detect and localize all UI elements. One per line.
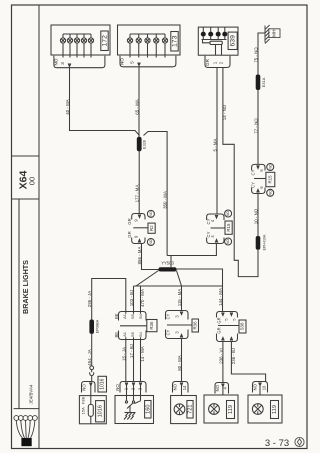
splice E31A bbox=[256, 75, 261, 91]
svg-text:5: 5 bbox=[233, 318, 237, 320]
svg-text:3 - 73: 3 - 73 bbox=[265, 438, 289, 449]
bus wire horizontal bbox=[134, 285, 223, 287]
svg-text:NO: NO bbox=[268, 164, 272, 169]
wire 172 pin3 down bbox=[70, 68, 140, 136]
svg-text:NO: NO bbox=[115, 384, 120, 391]
pin bracket below 173 bbox=[120, 56, 176, 67]
svg-text:6: 6 bbox=[259, 169, 264, 172]
svg-text:BRAKE LIGHTS: BRAKE LIGHTS bbox=[21, 260, 30, 314]
connector 172 bbox=[51, 25, 110, 58]
connector label box 1016 above bbox=[98, 376, 107, 392]
splice EP08BA bbox=[89, 320, 94, 334]
pin bracket above 160 bbox=[120, 382, 146, 393]
svg-text:B4: B4 bbox=[138, 313, 143, 319]
svg-text:119: 119 bbox=[272, 405, 278, 414]
svg-text:160: 160 bbox=[145, 405, 151, 414]
pin bracket above 119 right bbox=[253, 382, 268, 396]
wire S36 pin5 to 119 left bbox=[222, 342, 224, 383]
svg-text:119: 119 bbox=[228, 405, 234, 414]
title block box X64 bbox=[12, 155, 40, 157]
pin bracket below 172 bbox=[54, 56, 105, 68]
wire YY503 left diagonal to bus bbox=[134, 271, 159, 287]
svg-text:80 - MA: 80 - MA bbox=[177, 355, 182, 370]
wire E328 to R2 bbox=[138, 151, 140, 213]
svg-text:GR: GR bbox=[205, 58, 210, 66]
wire 639 pin2 14-NO bbox=[223, 68, 258, 277]
svg-text:F3B: F3B bbox=[80, 397, 85, 405]
lamp unit 721 bbox=[171, 396, 197, 424]
svg-text:GR: GR bbox=[127, 218, 132, 224]
splice EPH4 bbox=[256, 236, 261, 250]
fuse unit 1016 bbox=[79, 386, 106, 424]
lamp unit 119 left bbox=[204, 395, 238, 423]
svg-text:65 - MA: 65 - MA bbox=[134, 99, 139, 114]
svg-text:75 - NO: 75 - NO bbox=[253, 47, 258, 63]
svg-text:1016: 1016 bbox=[100, 378, 106, 389]
svg-text:5: 5 bbox=[130, 61, 135, 64]
svg-text:14: 14 bbox=[182, 385, 187, 390]
svg-text:1016: 1016 bbox=[98, 405, 104, 417]
svg-text:NO: NO bbox=[215, 384, 220, 391]
splice YY503 bbox=[159, 267, 177, 271]
sidebar harness icon bbox=[14, 416, 37, 447]
wire bus drop 115-MA bbox=[181, 286, 183, 311]
svg-text:YY503: YY503 bbox=[161, 261, 174, 266]
svg-text:CY: CY bbox=[166, 313, 171, 319]
connector S36 bbox=[217, 312, 247, 342]
svg-text:NO: NO bbox=[226, 211, 230, 216]
svg-text:16: 16 bbox=[261, 385, 266, 390]
logo circle bbox=[295, 437, 304, 446]
svg-text:GR: GR bbox=[216, 317, 221, 323]
svg-text:B4: B4 bbox=[138, 331, 143, 337]
wire 639 pin1 5-MA bbox=[216, 68, 218, 215]
svg-text:15A: 15A bbox=[80, 407, 85, 414]
svg-text:9: 9 bbox=[133, 235, 138, 238]
sidebar divider bbox=[38, 5, 40, 449]
svg-text:40 - MA: 40 - MA bbox=[65, 99, 70, 114]
svg-text:R36: R36 bbox=[192, 321, 197, 330]
svg-text:4: 4 bbox=[223, 386, 228, 389]
svg-text:B5: B5 bbox=[130, 314, 135, 319]
svg-text:177 - MA: 177 - MA bbox=[135, 185, 140, 203]
wire YY503 right out to 144-MA bbox=[177, 269, 223, 312]
lamp unit 119 right bbox=[248, 395, 282, 423]
pin bracket below 639 bbox=[205, 56, 230, 68]
svg-text:350 - MA: 350 - MA bbox=[163, 191, 168, 209]
connector R36 A1 B5 B4 bbox=[119, 312, 158, 340]
svg-text:1: 1 bbox=[212, 61, 217, 64]
svg-text:14 - NO: 14 - NO bbox=[222, 104, 227, 120]
svg-text:9: 9 bbox=[133, 219, 138, 222]
svg-text:BE: BE bbox=[114, 313, 119, 319]
svg-text:R36: R36 bbox=[149, 321, 154, 330]
splice E328 bbox=[137, 137, 142, 152]
svg-text:JE4/BVA4: JE4/BVA4 bbox=[29, 384, 34, 404]
svg-text:77 - NO: 77 - NO bbox=[253, 118, 258, 134]
connector R15 pins 4/4 bbox=[207, 210, 233, 245]
svg-text:NO: NO bbox=[172, 383, 177, 390]
svg-text:3: 3 bbox=[175, 331, 180, 334]
svg-text:CY: CY bbox=[251, 169, 256, 175]
svg-text:3: 3 bbox=[175, 315, 180, 318]
svg-text:5: 5 bbox=[225, 318, 229, 320]
svg-text:173: 173 bbox=[171, 35, 178, 47]
inline connector on JA wire bbox=[90, 366, 94, 381]
svg-text:103 - BJ: 103 - BJ bbox=[129, 290, 134, 306]
svg-text:6: 6 bbox=[259, 186, 264, 189]
svg-text:R15: R15 bbox=[268, 175, 273, 184]
svg-text:00: 00 bbox=[28, 177, 37, 185]
wire S36 pin5 to 119 right bbox=[231, 342, 265, 382]
svg-text:E31A: E31A bbox=[261, 77, 266, 87]
svg-text:15 - JA: 15 - JA bbox=[121, 347, 126, 361]
relay unit 639 bbox=[198, 27, 238, 55]
wire R36a B5 to 160 pin2 bbox=[133, 340, 135, 383]
svg-text:639: 639 bbox=[229, 35, 236, 47]
svg-text:S36: S36 bbox=[240, 322, 245, 330]
svg-text:B5: B5 bbox=[130, 332, 135, 337]
svg-text:2: 2 bbox=[219, 61, 224, 64]
svg-text:CY: CY bbox=[251, 182, 256, 188]
svg-text:115 - MA: 115 - MA bbox=[177, 289, 182, 307]
wire R15 pin4 + 350-MA into YY503 bbox=[167, 244, 216, 268]
svg-text:NO: NO bbox=[120, 58, 125, 65]
svg-text:10 - NO: 10 - NO bbox=[253, 208, 258, 224]
svg-text:NO: NO bbox=[226, 239, 230, 244]
svg-text:17 - BJ: 17 - BJ bbox=[129, 344, 134, 358]
svg-text:BE: BE bbox=[114, 332, 119, 338]
ground MH bbox=[265, 25, 280, 44]
wire ground to E31A bbox=[258, 33, 265, 75]
svg-text:236 - BJ: 236 - BJ bbox=[231, 348, 236, 364]
svg-text:A1: A1 bbox=[122, 314, 127, 319]
svg-text:E328: E328 bbox=[143, 140, 147, 149]
wire EP08BA down bbox=[91, 334, 93, 366]
svg-text:R2: R2 bbox=[149, 225, 154, 231]
sidebar inner column line bbox=[18, 199, 20, 409]
svg-text:470 - MA: 470 - MA bbox=[140, 289, 145, 307]
svg-text:NO: NO bbox=[149, 211, 153, 216]
svg-text:NO: NO bbox=[53, 58, 58, 65]
svg-text:236 - VI: 236 - VI bbox=[218, 348, 223, 363]
wire 173 pin5 down bbox=[138, 67, 140, 137]
svg-text:NO: NO bbox=[81, 384, 86, 391]
wire R36a B4 to 160 pin3 bbox=[140, 340, 142, 383]
svg-text:GR: GR bbox=[127, 231, 132, 237]
svg-text:A1: A1 bbox=[122, 332, 127, 337]
svg-text:3: 3 bbox=[60, 62, 65, 65]
wire bus drop 470-MA bbox=[140, 286, 142, 312]
wire E31A to R15 pin6 bbox=[257, 90, 259, 164]
connector 173 bbox=[118, 25, 181, 58]
wire bus drop 103-BJ bbox=[133, 286, 135, 312]
svg-text:NO: NO bbox=[252, 383, 257, 390]
svg-text:GR: GR bbox=[216, 327, 221, 333]
svg-text:4: 4 bbox=[210, 235, 215, 238]
wire R36b pin3 to 721 bbox=[181, 339, 183, 382]
pin bracket above 721 bbox=[173, 382, 189, 396]
wire R36a A1 to 160 pin1 bbox=[125, 340, 127, 383]
svg-text:4: 4 bbox=[210, 219, 215, 222]
svg-text:172: 172 bbox=[101, 35, 108, 47]
connector R36 pin3 bbox=[166, 311, 199, 339]
svg-text:NO: NO bbox=[268, 190, 272, 195]
wire branch to 350-MA bbox=[144, 132, 168, 256]
svg-text:EPH410A: EPH410A bbox=[262, 234, 266, 250]
svg-text:R15: R15 bbox=[226, 223, 231, 232]
svg-text:NO: NO bbox=[149, 239, 153, 244]
wire R15 pin6 to EPH4 bbox=[257, 194, 259, 237]
svg-text:856 - MA: 856 - MA bbox=[137, 247, 142, 265]
svg-text:295 - JA: 295 - JA bbox=[87, 291, 92, 307]
pin bracket above 119 left bbox=[215, 383, 229, 396]
connector R15 pins 6/6 bbox=[252, 164, 275, 197]
svg-text:MH: MH bbox=[272, 29, 278, 37]
svg-text:5 - MA: 5 - MA bbox=[212, 138, 217, 151]
svg-text:144 - MA: 144 - MA bbox=[218, 288, 223, 306]
sidebar icon divider bbox=[14, 408, 39, 410]
svg-text:EP08BA: EP08BA bbox=[95, 319, 99, 333]
wire A1 feed bbox=[92, 279, 126, 320]
wire R2 pin9 to YY503 856-MA bbox=[142, 244, 159, 270]
wire YY503 right diagonal to bus bbox=[177, 271, 182, 287]
connector R2 (pins 9/9) bbox=[132, 210, 156, 245]
pin bracket above 1016 bbox=[82, 382, 96, 393]
svg-text:721: 721 bbox=[187, 405, 193, 414]
brake switch unit 160 bbox=[115, 386, 154, 424]
svg-text:14 - MA: 14 - MA bbox=[140, 346, 145, 361]
svg-text:CY: CY bbox=[166, 329, 171, 335]
svg-text:454 - JA: 454 - JA bbox=[87, 349, 92, 365]
